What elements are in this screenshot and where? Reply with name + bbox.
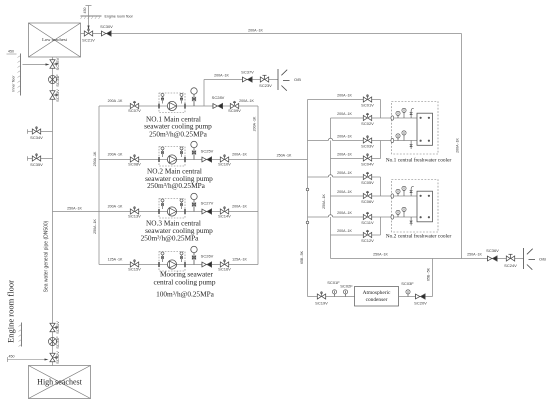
strainer SC34F	[49, 76, 57, 84]
svg-text:SC27V: SC27V	[201, 201, 214, 206]
vent cocks	[161, 199, 164, 209]
svg-text:450: 450	[8, 50, 14, 54]
valve SC16V	[220, 260, 228, 267]
svg-text:125A -1K: 125A -1K	[232, 258, 247, 262]
overboard symbol	[278, 69, 290, 91]
svg-text:SC12V: SC12V	[361, 238, 374, 243]
svg-text:200A -1K: 200A -1K	[252, 116, 256, 131]
inlet flange	[391, 215, 394, 219]
dimension 450 riser	[88, 6, 90, 30]
pump unit P1 dashed box	[159, 93, 185, 113]
pressure gauge	[191, 246, 197, 264]
svg-text:central cooling pump: central cooling pump	[153, 277, 215, 286]
svg-text:SC03F: SC03F	[401, 281, 414, 286]
wire: cooler branch 1	[308, 99, 381, 101]
svg-text:200A -1K: 200A -1K	[337, 229, 352, 233]
merge verticals	[380, 100, 382, 119]
svg-text:200A -1K: 200A -1K	[239, 99, 254, 103]
No.1 central freshwater cooler	[392, 102, 439, 155]
valve SC31V	[50, 323, 57, 331]
wire: cooler branch 4	[331, 158, 381, 160]
check valve SC37V	[243, 77, 253, 82]
check valve SC30V	[102, 31, 112, 36]
wire: overboard return line	[331, 258, 524, 260]
svg-text:O/B: O/B	[294, 77, 301, 82]
svg-text:SC26V: SC26V	[201, 254, 214, 259]
svg-text:200A -1K: 200A -1K	[232, 153, 247, 157]
vent valve	[411, 108, 414, 111]
svg-text:250A -1K: 250A -1K	[67, 207, 82, 211]
valve SC02V	[363, 113, 371, 120]
overboard symbol	[524, 248, 536, 270]
check valve SC25V	[202, 157, 212, 162]
svg-text:SC34F: SC34F	[55, 74, 60, 87]
svg-text:SC05V: SC05V	[361, 180, 374, 185]
svg-text:200A -1K: 200A -1K	[337, 171, 352, 175]
wire: right drop	[461, 34, 463, 259]
valve SC12V	[363, 230, 371, 237]
wire: cooler branch 2	[331, 117, 381, 119]
valve SC21V	[84, 29, 92, 36]
svg-text:200A -1K: 200A -1K	[337, 190, 352, 194]
svg-text:SC09V: SC09V	[228, 108, 241, 113]
check valve SC20V	[416, 294, 426, 299]
svg-text:No.1 central freshwater cooler: No.1 central freshwater cooler	[386, 157, 452, 164]
thermometer SC01F	[332, 290, 336, 297]
inner floor	[20, 54, 22, 96]
gauge SC02F	[343, 290, 347, 297]
thermometer	[396, 210, 400, 217]
pump unit P4 dashed box	[159, 252, 185, 272]
svg-text:High seachest: High seachest	[37, 378, 82, 387]
svg-text:250A -1K: 250A -1K	[93, 151, 97, 166]
valve SC11V	[363, 212, 371, 219]
svg-text:SC34V: SC34V	[30, 135, 43, 140]
wire: low seachest to top main	[81, 33, 462, 35]
valve SC07V	[130, 101, 138, 108]
svg-text:200A -1K: 200A -1K	[108, 153, 123, 157]
pump P4	[167, 260, 176, 269]
valve SC33V	[50, 91, 57, 99]
valve SC04V	[363, 154, 371, 161]
svg-text:SC04V: SC04V	[361, 161, 374, 166]
svg-text:SC37V: SC37V	[241, 70, 254, 75]
valve SC19V	[317, 292, 325, 299]
pump P1	[167, 101, 176, 110]
svg-text:Engine room floor: Engine room floor	[6, 280, 16, 343]
valve SC03V	[363, 136, 371, 143]
svg-text:65B -5K: 65B -5K	[300, 250, 304, 264]
svg-text:200A -1K: 200A -1K	[108, 205, 123, 209]
gauge SC03F	[406, 290, 410, 297]
pressure gauge	[191, 141, 197, 159]
svg-text:SC13V: SC13V	[128, 214, 141, 219]
svg-text:Sea water general pipe (DN500): Sea water general pipe (DN500)	[44, 220, 50, 292]
pump unit P3 dashed box	[159, 199, 185, 219]
wire: pump1 overboard riser	[203, 80, 205, 107]
valve SC06V	[363, 191, 371, 198]
branch valve SC35V	[28, 158, 53, 160]
svg-text:SC33V: SC33V	[55, 89, 60, 102]
heat exchanger body	[417, 191, 433, 222]
svg-text:SC35V: SC35V	[30, 162, 43, 167]
valve SC15V	[130, 260, 138, 267]
svg-text:SC02F: SC02F	[340, 284, 353, 289]
wire: cooler branch 6	[331, 195, 381, 197]
svg-text:SC33F: SC33F	[55, 336, 60, 349]
svg-text:SC06V: SC06V	[361, 199, 374, 204]
valve SC09V	[230, 101, 238, 108]
svg-text:SC21V: SC21V	[82, 38, 95, 43]
valve SC32V	[50, 353, 57, 361]
svg-text:200A -1K: 200A -1K	[337, 94, 352, 98]
svg-text:200A -1K: 200A -1K	[455, 138, 459, 153]
strainer SC33F	[49, 338, 57, 346]
wire: sea water main	[52, 57, 54, 366]
dimension 450	[8, 359, 47, 361]
wire: cooler inlet pipes	[381, 117, 418, 119]
svg-text:SC03V: SC03V	[361, 143, 374, 148]
svg-text:SC14V: SC14V	[218, 213, 231, 218]
wire: cooler branch 3	[308, 140, 329, 142]
svg-text:250m³/h@0.25MPa: 250m³/h@0.25MPa	[147, 181, 206, 190]
svg-text:No.2 central freshwater cooler: No.2 central freshwater cooler	[386, 233, 452, 240]
svg-text:250m³/h@0.25MPa: 250m³/h@0.25MPa	[141, 233, 200, 242]
svg-text:Engine room floor: Engine room floor	[105, 15, 134, 19]
vent cocks	[161, 93, 164, 103]
inlet flange	[391, 194, 394, 198]
return manifold	[330, 118, 332, 259]
wire: pump 2 branch	[99, 159, 258, 161]
thermometer	[396, 134, 400, 141]
wire: cooler branch 7	[308, 216, 329, 218]
wire: cooler branch 5	[308, 176, 329, 178]
valve SC24V	[506, 254, 514, 261]
svg-text:Low seachest: Low seachest	[42, 37, 68, 42]
svg-text:SC01F: SC01F	[327, 280, 340, 285]
svg-text:SC19V: SC19V	[315, 301, 328, 306]
svg-text:SC15V: SC15V	[128, 267, 141, 272]
vent cocks	[161, 252, 164, 262]
pressure gauge	[402, 207, 406, 214]
flow arrow into main	[23, 64, 46, 66]
svg-text:450: 450	[9, 355, 15, 359]
svg-text:SC02V: SC02V	[361, 121, 374, 126]
wire: condenser outlet	[399, 296, 433, 298]
valve SC05V	[363, 172, 371, 179]
branch valve SC34V	[28, 131, 53, 133]
svg-text:200A -1K: 200A -1K	[337, 135, 352, 139]
valve SC13V	[130, 207, 138, 214]
pump unit P2 dashed box	[159, 147, 185, 167]
svg-text:SC23V: SC23V	[259, 83, 272, 88]
svg-text:SC24V: SC24V	[504, 263, 517, 268]
svg-text:200A -1K: 200A -1K	[108, 99, 123, 103]
svg-text:100m³/h@0.25MPa: 100m³/h@0.25MPa	[156, 289, 215, 298]
svg-text:250m³/h@0.25MPa: 250m³/h@0.25MPa	[149, 129, 208, 138]
supply manifold	[307, 100, 309, 297]
svg-text:200A -1K: 200A -1K	[248, 29, 263, 33]
svg-text:250A -1K: 250A -1K	[322, 194, 326, 209]
vent cocks	[161, 147, 164, 157]
svg-text:200A -1K: 200A -1K	[214, 74, 229, 78]
No.2 central freshwater cooler	[392, 180, 439, 233]
svg-text:SC30V: SC30V	[100, 24, 113, 29]
svg-text:SC35V: SC35V	[55, 57, 60, 70]
inlet flange	[391, 116, 394, 120]
check valve SC27V	[202, 209, 212, 214]
svg-text:250A -1K: 250A -1K	[93, 219, 97, 234]
wire: mooring pump branch	[99, 264, 258, 266]
svg-text:SC10V: SC10V	[218, 161, 231, 166]
wire: pump 3 branch	[53, 211, 259, 213]
suction manifold	[98, 106, 100, 265]
svg-text:SC28V: SC28V	[212, 95, 225, 100]
check valve SC28V	[213, 103, 223, 108]
svg-text:65B -5K: 65B -5K	[426, 267, 430, 281]
wire: cooler branch 8	[331, 234, 381, 236]
valve SC08V	[130, 155, 138, 162]
svg-text:condenser: condenser	[366, 297, 388, 303]
svg-text:SC16V: SC16V	[218, 266, 231, 271]
low sea chest	[29, 23, 81, 57]
svg-text:250A -1K: 250A -1K	[373, 253, 388, 257]
svg-text:O/B: O/B	[539, 257, 546, 262]
engine room floor line (top)	[81, 15, 102, 17]
svg-text:200A -1K: 200A -1K	[337, 153, 352, 157]
discharge manifold	[257, 106, 259, 265]
svg-text:250A -1K: 250A -1K	[467, 253, 482, 257]
svg-text:250A -1K: 250A -1K	[277, 153, 292, 157]
svg-text:200A -1K: 200A -1K	[337, 112, 352, 116]
thermometer	[396, 189, 400, 196]
wire: condenser feed	[308, 296, 355, 298]
high seachest	[29, 366, 91, 399]
wire: supply 250A line	[258, 159, 308, 161]
svg-text:125A -1K: 125A -1K	[108, 258, 123, 262]
wire: riser to overboard line	[432, 259, 434, 297]
svg-text:SC01V: SC01V	[361, 102, 374, 107]
pressure gauge	[402, 186, 406, 193]
svg-text:200A -1K: 200A -1K	[337, 211, 352, 215]
svg-text:SC08V: SC08V	[128, 162, 141, 167]
vent valve	[411, 186, 414, 189]
thermometer	[396, 111, 400, 118]
pressure gauge	[402, 131, 406, 138]
wire: pump 1 branch	[99, 105, 258, 107]
svg-text:450: 450	[83, 8, 87, 14]
pump P2	[167, 155, 176, 164]
svg-text:SC31V: SC31V	[55, 321, 60, 334]
valve SC10V	[220, 155, 228, 162]
pump P3	[167, 207, 176, 216]
drain valve	[410, 217, 412, 226]
svg-text:SC07V: SC07V	[128, 108, 141, 113]
heat exchanger body	[417, 113, 433, 145]
valve SC14V	[220, 207, 228, 214]
svg-text:SC20V: SC20V	[414, 301, 427, 306]
svg-text:SC11V: SC11V	[361, 220, 374, 225]
svg-text:Atmospheric: Atmospheric	[363, 290, 391, 296]
valve SC35V	[50, 60, 57, 68]
svg-text:SC32V: SC32V	[55, 351, 60, 364]
pressure gauge	[191, 88, 197, 106]
check valve SC26V	[202, 262, 212, 267]
svg-text:SC25V: SC25V	[201, 149, 214, 154]
atmospheric condenser	[355, 287, 399, 307]
pressure gauge	[402, 108, 406, 115]
inlet flange	[391, 138, 394, 142]
svg-text:SC36V: SC36V	[486, 248, 499, 253]
pressure gauge	[191, 193, 197, 211]
check valve SC36V	[488, 256, 498, 261]
valve SC01V	[363, 95, 371, 102]
junction circles	[306, 188, 309, 191]
drain valve	[410, 141, 412, 150]
svg-text:200A -1K: 200A -1K	[232, 205, 247, 209]
svg-text:Inner floor: Inner floor	[12, 75, 16, 92]
valve SC23V	[260, 75, 268, 82]
